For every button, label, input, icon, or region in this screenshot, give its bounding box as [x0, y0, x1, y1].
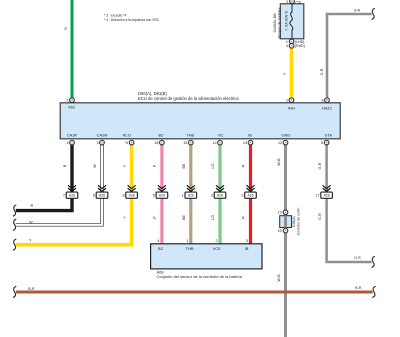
svg-text:1: 1: [182, 194, 184, 198]
svg-text:R: R: [242, 216, 246, 219]
svg-text:4: 4: [157, 239, 159, 243]
svg-text:INH: INH: [288, 106, 295, 111]
svg-text:THB: THB: [186, 246, 194, 251]
svg-text:4: 4: [66, 141, 68, 145]
svg-text:B-R: B-R: [28, 287, 35, 291]
svg-text:VC: VC: [218, 132, 224, 137]
svg-text:G: G: [64, 27, 68, 30]
svg-text:13: 13: [277, 211, 281, 215]
svg-text:B2: B2: [159, 132, 165, 137]
svg-text:2: 2: [215, 239, 217, 243]
svg-text:CA3N: CA3N: [97, 132, 108, 137]
svg-text:3: 3: [211, 194, 213, 198]
svg-text:R: R: [242, 164, 246, 167]
svg-text:Y: Y: [123, 164, 127, 167]
svg-text:2: 2: [286, 0, 288, 4]
svg-text:1: 1: [286, 99, 288, 103]
svg-text:3: 3: [96, 141, 98, 145]
svg-text:Y: Y: [123, 216, 127, 219]
svg-text:HAZ1: HAZ1: [322, 106, 333, 111]
svg-text:*4: *4: [125, 141, 129, 145]
svg-text:B: B: [63, 164, 67, 167]
svg-text:G-R: G-R: [320, 68, 324, 75]
svg-text:8: 8: [122, 194, 124, 198]
svg-text:(RHD): (RHD): [295, 44, 305, 48]
svg-text:X62: X62: [68, 104, 76, 109]
svg-text:* 4 : Dirección a la izquierda: * 4 : Dirección a la izquierda con VSC: [104, 18, 160, 22]
svg-text:4: 4: [286, 44, 288, 48]
svg-text:B-R: B-R: [355, 286, 362, 290]
svg-text:VC5: VC5: [213, 246, 222, 251]
svg-text:17: 17: [315, 194, 319, 198]
svg-text:G-R: G-R: [318, 213, 322, 220]
svg-text:BE: BE: [182, 215, 186, 221]
svg-text:2: 2: [241, 194, 243, 198]
svg-text:5: 5: [321, 141, 323, 145]
svg-text:2: 2: [66, 99, 68, 103]
svg-text:3: 3: [246, 239, 248, 243]
svg-text:BE: BE: [182, 163, 186, 169]
svg-text:RLO: RLO: [123, 132, 131, 137]
svg-text:15: 15: [277, 229, 281, 233]
svg-text:7, 5A IGN-S: 7, 5A IGN-S: [285, 10, 289, 31]
svg-text:GND: GND: [281, 132, 290, 137]
svg-text:W: W: [93, 164, 97, 168]
svg-text:IB: IB: [248, 132, 252, 137]
svg-text:(*3): (*3): [295, 0, 301, 4]
svg-text:18: 18: [154, 141, 158, 145]
svg-text:ECU de control de gestión de l: ECU de control de gestión de la alimenta…: [138, 96, 239, 101]
svg-text:0430AL BB: 0430AL BB: [273, 13, 277, 33]
svg-text:B2: B2: [158, 246, 164, 251]
svg-text:W-B: W-B: [277, 274, 281, 282]
svg-text:G-R: G-R: [354, 256, 361, 260]
svg-text:12: 12: [212, 141, 216, 145]
svg-text:* 3 : excepto *4: * 3 : excepto *4: [104, 13, 127, 17]
svg-text:15: 15: [183, 141, 187, 145]
svg-text:Conector de unión: Conector de unión: [297, 208, 301, 236]
svg-text:5: 5: [153, 194, 155, 198]
svg-text:Conjunto del sensor de la corr: Conjunto del sensor de la corriente de l…: [157, 274, 243, 279]
svg-text:13: 13: [243, 141, 247, 145]
svg-text:THB: THB: [186, 132, 194, 137]
svg-text:8: 8: [321, 99, 323, 103]
svg-text:1: 1: [186, 239, 188, 243]
svg-text:LG: LG: [211, 215, 215, 220]
svg-text:W-B: W-B: [277, 158, 281, 166]
svg-text:W: W: [29, 220, 33, 224]
svg-text:1: 1: [286, 40, 288, 44]
svg-text:Bloque de fusibles: Bloque de fusibles: [278, 7, 282, 38]
svg-text:Y: Y: [283, 72, 287, 75]
svg-text:6: 6: [93, 194, 95, 198]
svg-text:LG: LG: [211, 163, 215, 168]
svg-text:CA3P: CA3P: [67, 132, 78, 137]
svg-text:12: 12: [278, 141, 282, 145]
svg-text:(LHD): (LHD): [295, 40, 305, 44]
svg-text:G-R: G-R: [318, 162, 322, 169]
svg-text:STA: STA: [325, 132, 333, 137]
svg-text:7: 7: [63, 194, 65, 198]
svg-text:D38(A): D38(A): [292, 216, 296, 227]
svg-text:IB: IB: [245, 246, 249, 251]
svg-text:G-R: G-R: [354, 8, 361, 12]
